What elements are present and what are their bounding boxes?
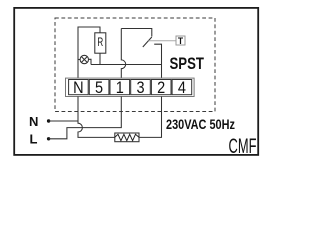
svg-text:CMF: CMF bbox=[229, 134, 257, 158]
node L dot bbox=[47, 137, 50, 140]
wire: terminal 1 riser with crossover hop bbox=[121, 29, 125, 81]
border frame bbox=[14, 8, 258, 155]
svg-text:SPST: SPST bbox=[170, 55, 204, 74]
svg-text:L: L bbox=[30, 132, 38, 147]
indicator lamp bbox=[80, 55, 88, 63]
wire: switch feed top bbox=[121, 29, 152, 37]
node N dot bbox=[47, 119, 50, 122]
wire: lamp left stub bbox=[78, 59, 80, 61]
heater element bbox=[115, 133, 139, 142]
svg-text:1: 1 bbox=[116, 79, 124, 97]
wire: terminal N drop bbox=[77, 96, 79, 121]
terminal 4 bbox=[172, 79, 192, 97]
terminal 3 bbox=[131, 79, 151, 97]
thermostat enclosure (dashed box) bbox=[55, 18, 215, 112]
svg-text:3: 3 bbox=[136, 79, 144, 97]
wire: switch output to terminal 2 bbox=[154, 44, 161, 80]
wire: lamp/resistor output horizontal bbox=[91, 64, 162, 66]
svg-text:5: 5 bbox=[95, 79, 103, 97]
wire: N supply lead bbox=[49, 120, 78, 122]
wire: L supply lead to terminal 1 bbox=[49, 96, 122, 138]
terminal N bbox=[69, 79, 89, 97]
svg-text:N: N bbox=[29, 114, 38, 129]
terminal 2 bbox=[151, 79, 171, 97]
wire: resistor bottom stub bbox=[99, 53, 101, 64]
svg-text:2: 2 bbox=[157, 79, 165, 97]
sensor box T bbox=[176, 36, 185, 47]
wire: heater to terminal 2 bbox=[139, 96, 162, 137]
terminal 1 bbox=[110, 79, 130, 97]
svg-text:T: T bbox=[178, 36, 184, 47]
svg-text:4: 4 bbox=[178, 79, 186, 97]
terminal 5 bbox=[89, 79, 109, 97]
wire: N branch to heater with crossover hop bbox=[78, 121, 115, 137]
wire: lamp right elbow bbox=[89, 59, 92, 64]
wire: terminal N riser to lamp/resistor top bbox=[78, 27, 100, 80]
terminal strip outer bbox=[66, 78, 195, 96]
svg-text:N: N bbox=[73, 79, 83, 97]
thermostat actuator link bbox=[149, 40, 177, 42]
switch SPST blade bbox=[143, 37, 152, 47]
resistor R bbox=[95, 33, 106, 53]
svg-text:230VAC 50Hz: 230VAC 50Hz bbox=[166, 117, 235, 133]
svg-text:R: R bbox=[97, 37, 103, 50]
